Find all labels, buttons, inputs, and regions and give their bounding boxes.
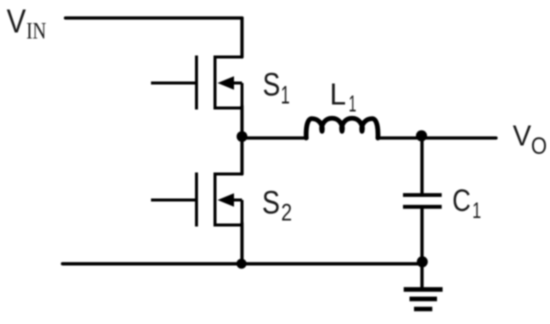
S2 body arrow	[230, 199, 242, 202]
S2 source stub	[214, 224, 243, 227]
S1 body arrow	[230, 82, 242, 85]
wire S2 gate lead	[151, 199, 195, 202]
node A switch node junction dot	[237, 131, 248, 142]
wire inductor to VO	[379, 136, 496, 139]
ground	[404, 289, 443, 309]
svg-text:S: S	[262, 185, 280, 221]
S2 gate bar	[195, 173, 198, 227]
S2 channel bar	[214, 173, 217, 226]
svg-text:1: 1	[472, 199, 481, 224]
label VO	[513, 120, 547, 160]
inductor L1	[306, 118, 378, 138]
S1 channel bar	[214, 56, 217, 109]
S2 right vertical	[241, 200, 244, 225]
wire S1 drain lead	[240, 18, 243, 57]
wire C1 bottom lead	[420, 207, 423, 264]
node C1 ground rail junction dot	[417, 256, 428, 267]
transistor S2	[151, 173, 242, 227]
svg-text:IN: IN	[26, 18, 46, 44]
wire ground lead	[420, 264, 423, 289]
wire S1 source lead to node	[240, 106, 243, 139]
label C1	[452, 184, 481, 224]
svg-text:S: S	[263, 67, 281, 103]
S1 drain stub	[214, 56, 243, 59]
S1 right vertical	[241, 83, 244, 108]
svg-text:V: V	[7, 2, 26, 39]
wire C1 top lead	[420, 136, 423, 195]
svg-text:2: 2	[281, 199, 292, 226]
svg-text:C: C	[452, 184, 471, 219]
S2 drain stub	[214, 173, 243, 176]
wire switch node to inductor	[242, 136, 307, 139]
svg-text:1: 1	[349, 92, 357, 117]
wire bottom rail	[63, 262, 423, 265]
wire S2 drain lead from node	[240, 135, 243, 174]
node output junction dot	[416, 130, 427, 141]
S1 gate bar	[195, 56, 198, 110]
svg-text:1: 1	[281, 82, 290, 109]
svg-text:V: V	[513, 120, 532, 153]
C1 top plate	[403, 193, 442, 197]
node S2 source rail junction dot	[236, 259, 246, 269]
wire S2 source lead to rail	[240, 223, 243, 264]
C1 bottom plate	[403, 205, 442, 209]
label S2	[262, 185, 292, 226]
transistor S1	[151, 56, 242, 110]
label L1	[330, 78, 357, 117]
label S1	[263, 67, 290, 109]
svg-text:L: L	[330, 78, 346, 111]
label VIN	[7, 2, 47, 43]
wire S1 gate lead	[151, 82, 195, 85]
S1 source stub	[214, 107, 243, 110]
capacitor C1	[403, 195, 442, 207]
wire top rail VIN	[66, 16, 243, 19]
svg-text:O: O	[531, 133, 547, 160]
